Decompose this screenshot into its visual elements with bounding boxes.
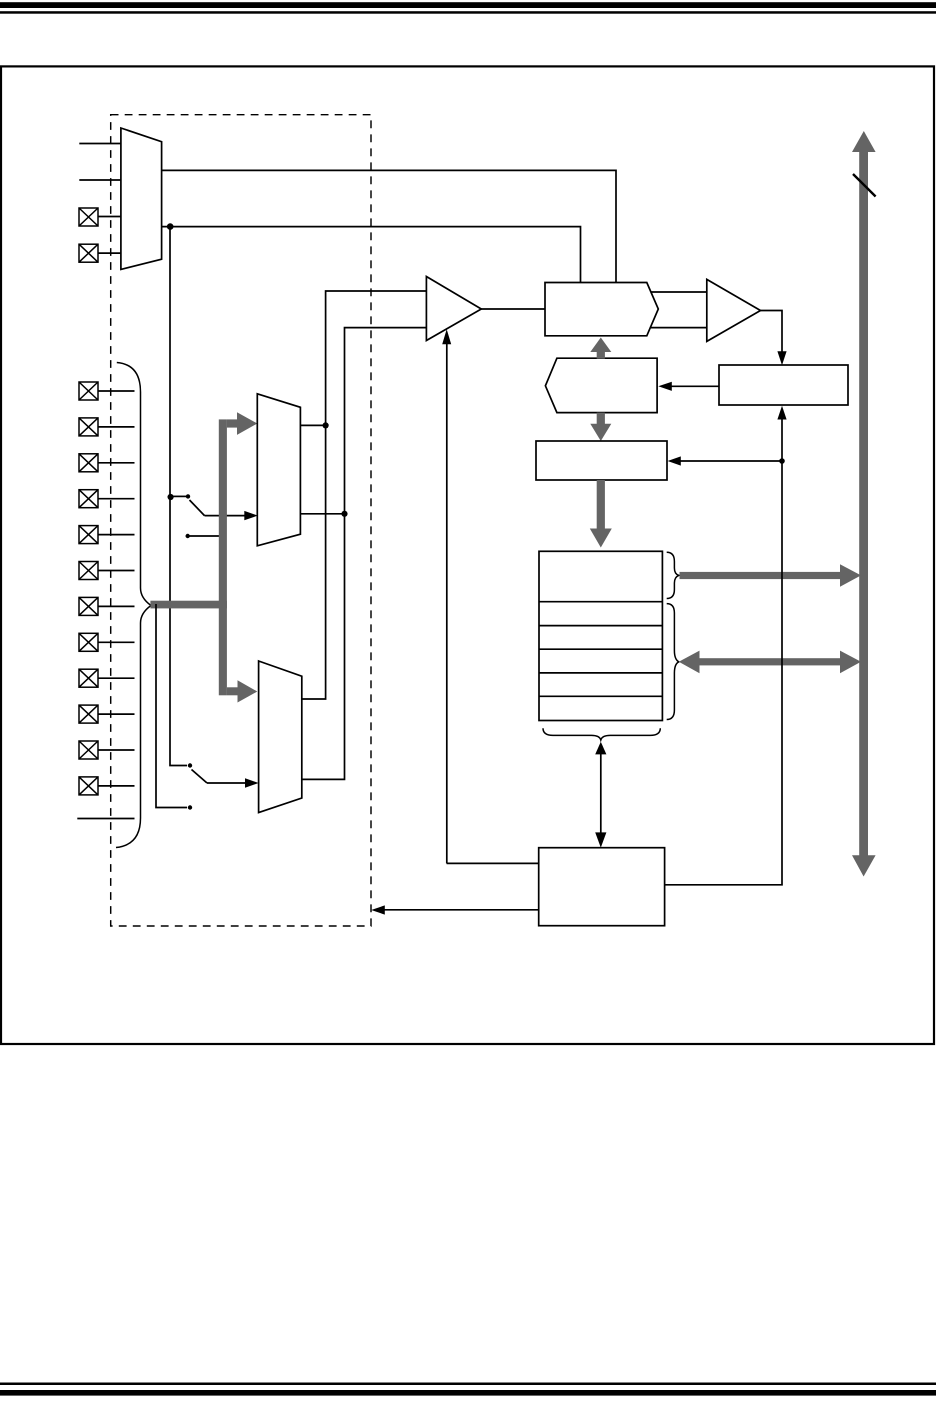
gray analog bus feed: vertical trunk (219, 419, 227, 695)
arrowhead into dashed box (371, 905, 385, 914)
wire: control to A1 enable (vertical with up arrow) (446, 342, 448, 864)
wire: A1 output to sample-hold (481, 308, 545, 310)
register R1 (top right rectangle) (719, 365, 848, 405)
gray arrow B3 down to register file (597, 480, 605, 529)
brace: big left channel brace (116, 363, 151, 848)
arrowhead into A1 (442, 329, 451, 344)
brace: RF row 0 output brace (667, 552, 679, 598)
wire: U2/U3 output bus 1 (vertical) to amp A1 input (302, 291, 426, 699)
wire: sample-hold to comparator A2 (upper) (651, 291, 707, 293)
switch SW2 lower contact dot (188, 805, 192, 809)
bus width tick (diagonal slash) (853, 174, 876, 197)
top header thick rule (0, 2, 936, 8)
arrowhead into U2 (244, 511, 257, 520)
figure frame (1, 66, 934, 1044)
node: junction dot on output bus 1 (323, 422, 329, 428)
mux U2 (upper channel mux trapezoid) (257, 394, 300, 546)
wires: pad stubs into brace (98, 391, 135, 786)
wire: SW1 lower contact stub to gray bus (189, 535, 220, 537)
wire: U1 input line 2 (79, 179, 121, 181)
RF row divider 4 (539, 672, 662, 674)
wire: junction to B3 (left arrow) (680, 460, 782, 462)
wire: U2/U3 output bus 2 (vertical) to amp A1 input (302, 328, 426, 780)
node: junction big dot on rail at switch SW1 (168, 494, 174, 500)
wire: P1 to U1 (98, 216, 122, 218)
brace: RF rows 1-5 bidirectional brace (667, 604, 679, 720)
arrowhead into B3 right edge (668, 456, 681, 465)
RF row divider 1 (539, 601, 662, 603)
arrowhead up into R1 bottom (777, 406, 786, 420)
wire: control to dashed module (left arrow) (383, 909, 539, 911)
arrowhead into U3 (245, 778, 259, 787)
input mux U1 (reference/channel select, top-left trapezoid) (121, 128, 162, 269)
wire: SW1 to mux U2 select input (205, 515, 246, 517)
wire: A2 output down to result register R1 (761, 311, 783, 353)
block B3 SAR logic rectangle (536, 441, 667, 480)
node: junction dot on output bus 2 (341, 511, 347, 517)
arrowhead up to RF brace (595, 742, 606, 755)
wire: bottom input line (no pad) (77, 818, 134, 820)
mux U3 (lower channel mux trapezoid) (259, 661, 302, 813)
switch SW2 lever (192, 770, 208, 784)
wire: SW2 to mux U3 select input (207, 782, 246, 784)
wire: U2 output 2 (300, 513, 344, 515)
block B2 DAC (pentagon pointing left) (545, 358, 657, 412)
node: junction on U1 output 2 (167, 223, 174, 230)
wire: R1 to B2 (left arrow) (670, 385, 719, 387)
gray arrow into mux U3 (227, 687, 238, 695)
switch SW1 contact stub (171, 495, 186, 497)
bottom footer thin rule (0, 1383, 936, 1386)
gray data bus top arrowhead (852, 131, 876, 152)
arrowhead into R1 top (777, 351, 786, 365)
wire: U1 output 1 to sample hold top (162, 170, 616, 282)
switch SW1 lower contact dot (186, 534, 190, 538)
brace: RF bottom address brace (543, 728, 660, 740)
analog pads column AN0-AN11 (crossed squares with stubs) (79, 382, 98, 795)
node: junction dot on control/R1 wire (779, 458, 785, 464)
gray bidirectional arrow RF rows to data bus (698, 658, 841, 665)
RF row divider 2 (539, 625, 662, 627)
gray system data bus (vertical, right) (859, 152, 868, 856)
wire: P2 to U1 (98, 252, 122, 254)
RF row divider 5 (539, 695, 662, 697)
wire: rail tap down from gray feed to SW2 lower contact (156, 604, 187, 808)
wire: control to A1 enable horizontal (447, 862, 539, 864)
pad P2 (crossed square) (79, 244, 98, 262)
switch SW2 upper contact dot (188, 763, 192, 767)
wire: sample-hold to comparator A2 (lower) (650, 327, 707, 329)
block B4 ADC control logic rectangle (539, 848, 665, 926)
wire: vertical reference rail from node down to switch SW2 (170, 227, 187, 766)
block B1 sample-and-hold (pentagon pointing right) (545, 283, 658, 336)
arrowhead down to control (595, 832, 606, 847)
op-amp A1 (input buffer triangle) (426, 277, 481, 341)
arrowhead into B2 right edge (658, 382, 672, 391)
wire: control right up to R1 bottom (665, 418, 782, 885)
switch SW1 lever (190, 500, 205, 516)
RF row divider 3 (539, 648, 662, 650)
wire: U1 input line 1 (79, 143, 121, 145)
gray arrow B2 down to B3 (597, 413, 605, 425)
gray data bus bottom arrowhead (852, 855, 876, 876)
switch SW1 contact dot (186, 494, 190, 498)
top header thin rule (0, 11, 936, 14)
register file RF (stacked result buffers) (539, 551, 662, 720)
gray arrow B2 up to B1 (597, 351, 605, 359)
dashed module boundary box (111, 115, 371, 926)
wire: U1 output 2 to sample hold top (162, 227, 581, 283)
bottom footer thick rule (0, 1390, 936, 1396)
op-amp A2 (comparator triangle) (707, 279, 761, 341)
gray arrow RF row0 to data bus (680, 572, 842, 579)
wire: U2 output 1 (300, 424, 325, 426)
gray analog bus feed: horizontal from brace cusp (150, 601, 227, 609)
gray arrow into mux U2 (227, 419, 238, 427)
wire: RF to control (bidirectional vertical) (600, 753, 602, 833)
pad P1 (crossed square) (79, 208, 98, 226)
